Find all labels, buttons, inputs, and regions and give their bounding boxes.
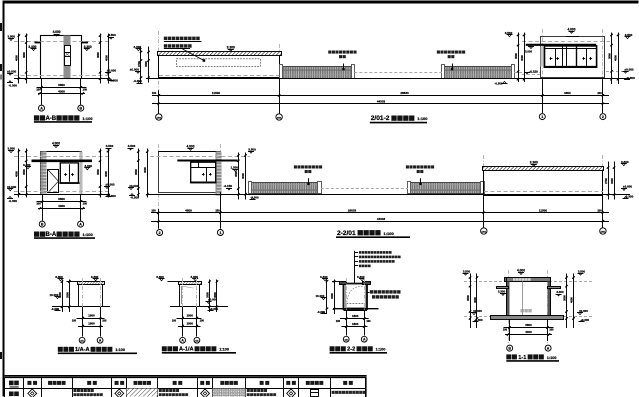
svg-text:-0.300: -0.300 [8,83,17,87]
svg-text:4000: 4000 [473,297,477,303]
svg-text:150: 150 [215,208,220,212]
svg-text:-0.300: -0.300 [8,199,17,203]
svg-text:1800: 1800 [88,314,95,318]
svg-text:4000: 4000 [614,55,618,61]
svg-text:4.000: 4.000 [52,142,60,146]
svg-text:3.300: 3.300 [556,290,564,294]
svg-text:1:100: 1:100 [219,348,229,352]
svg-text:100: 100 [151,208,156,212]
svg-text:3500: 3500 [134,169,138,175]
svg-text:1/A: 1/A [80,339,84,342]
svg-text:44333: 44333 [377,99,386,103]
svg-text:3.500: 3.500 [7,147,15,151]
svg-text:100: 100 [549,329,554,332]
svg-text:4.000: 4.000 [517,269,525,273]
svg-text:1/A: 1/A [195,339,199,342]
svg-text:2/01-2: 2/01-2 [371,115,390,122]
svg-text:1.500: 1.500 [231,166,239,170]
svg-text:4000: 4000 [58,89,65,93]
svg-text:1:100: 1:100 [82,116,93,121]
svg-text:100: 100 [336,320,341,323]
svg-text:4000: 4000 [58,204,65,208]
svg-text:4000: 4000 [15,171,19,177]
svg-text:3300: 3300 [330,293,334,299]
svg-text:3800: 3800 [58,83,65,87]
svg-text:4800: 4800 [185,208,192,212]
svg-text:2: 2 [602,115,604,119]
svg-text:100: 100 [366,320,371,323]
svg-text:3300: 3300 [205,292,209,298]
svg-text:100: 100 [83,202,88,206]
svg-text:3300: 3300 [610,178,614,184]
svg-text:3300: 3300 [65,292,69,298]
svg-text:3.500: 3.500 [128,144,136,148]
svg-text:4.000: 4.000 [187,144,195,148]
svg-text:4.000: 4.000 [568,27,576,31]
svg-text:1:100: 1:100 [383,231,394,236]
svg-text:100: 100 [597,208,602,212]
svg-text:B: B [508,346,511,350]
svg-text:1800: 1800 [187,314,194,318]
svg-text:3600: 3600 [22,52,26,58]
svg-text:100: 100 [172,319,177,322]
svg-text:A: A [40,106,43,110]
svg-text:1:100: 1:100 [115,348,125,352]
svg-text:3.500: 3.500 [578,269,586,273]
svg-text:-0.150: -0.150 [529,70,538,74]
svg-text:1800: 1800 [187,322,194,326]
svg-text:100: 100 [36,88,41,92]
svg-text:-0.300: -0.300 [130,196,139,200]
svg-text:1:100: 1:100 [547,356,557,360]
svg-text:4000: 4000 [15,55,19,61]
svg-text:1800: 1800 [352,314,359,318]
svg-text:3.500: 3.500 [463,269,471,273]
svg-text:3.300: 3.300 [498,290,506,294]
svg-text:3.000: 3.000 [525,49,532,53]
svg-text:1/A-A: 1/A-A [75,347,90,353]
svg-text:4000: 4000 [569,297,573,303]
svg-text:3600: 3600 [58,292,62,298]
svg-text:4800: 4800 [564,91,571,95]
svg-text:1: 1 [219,231,221,235]
svg-text:11500: 11500 [212,91,221,95]
svg-text:B: B [41,222,44,226]
svg-text:3500: 3500 [96,169,100,175]
svg-text:3.500: 3.500 [106,144,114,148]
svg-text:3500: 3500 [234,171,238,177]
svg-text:3800: 3800 [58,197,65,201]
svg-text:100: 100 [200,319,205,322]
svg-text:4000: 4000 [104,55,108,61]
svg-text:±0.000: ±0.000 [623,185,632,189]
svg-text:±0.000: ±0.000 [624,67,633,71]
svg-text:3500: 3500 [562,295,566,301]
svg-text:4000: 4000 [520,55,524,61]
svg-text:1:100: 1:100 [376,348,386,352]
svg-text:1/A: 1/A [344,338,348,341]
svg-text:100: 100 [36,202,41,206]
svg-text:2-2/01: 2-2/01 [337,230,356,237]
svg-text:B: B [79,106,82,110]
svg-text:100: 100 [503,329,508,332]
svg-text:±0.000: ±0.000 [107,69,116,73]
svg-text:28833: 28833 [400,91,409,95]
svg-text:3500: 3500 [514,53,518,59]
svg-text:44333: 44333 [377,217,386,221]
svg-text:3.300: 3.300 [227,45,235,49]
svg-text:4000: 4000 [104,171,108,177]
svg-text:1:100: 1:100 [417,116,428,121]
svg-text:2-2: 2-2 [347,347,355,353]
svg-text:3.500: 3.500 [108,33,116,37]
svg-text:3600: 3600 [96,52,100,58]
svg-text:100: 100 [83,88,88,92]
svg-text:A: A [547,346,550,350]
svg-text:A-1/A: A-1/A [179,347,194,353]
svg-text:3800: 3800 [525,323,532,327]
svg-text:3500: 3500 [607,53,611,59]
svg-text:200: 200 [597,91,602,95]
svg-text:3.500: 3.500 [7,34,15,38]
svg-text:3600: 3600 [213,292,217,298]
svg-text:4000: 4000 [241,173,245,179]
svg-text:2700: 2700 [604,178,608,184]
svg-text:-0.150: -0.150 [224,184,233,188]
svg-text:4000: 4000 [525,330,532,334]
svg-text:1800: 1800 [88,322,95,326]
svg-text:3.300: 3.300 [530,160,538,164]
svg-text:±0.000: ±0.000 [130,68,139,72]
svg-text:-0.300: -0.300 [625,195,634,199]
svg-text:3500: 3500 [22,169,26,175]
svg-text:4000: 4000 [143,167,147,173]
svg-text:3500: 3500 [466,295,470,301]
svg-text:A: A [79,222,82,226]
svg-text:100: 100 [72,319,77,322]
svg-text:1: 1 [541,115,543,119]
svg-text:4.000: 4.000 [53,30,61,34]
svg-text:1:100: 1:100 [82,232,93,237]
svg-text:2: 2 [159,231,161,235]
svg-text:3.500: 3.500 [248,147,256,151]
svg-text:100: 100 [152,91,157,95]
svg-text:26033: 26033 [348,208,357,212]
svg-text:100: 100 [102,319,107,322]
svg-text:1800: 1800 [352,322,359,326]
svg-text:11500: 11500 [539,208,548,212]
svg-text:±0.000: ±0.000 [7,69,16,73]
svg-text:1-1: 1-1 [518,355,526,361]
